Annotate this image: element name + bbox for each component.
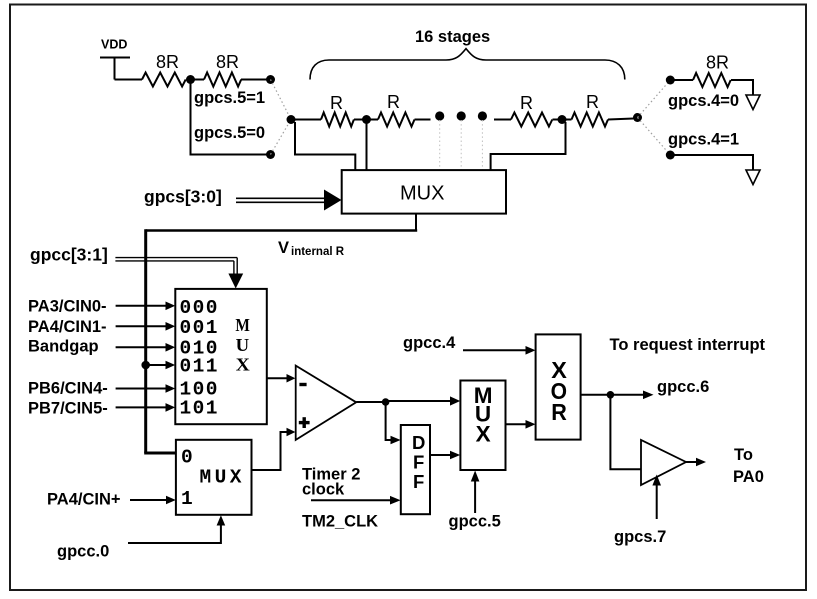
- comparator plus sign: [299, 421, 310, 424]
- wire R2 out: [415, 119, 431, 121]
- resistor 8R (right): [693, 73, 731, 87]
- wire node K down to buffer: [610, 395, 641, 469]
- tap wire from node E to MUX1: [366, 121, 368, 170]
- svg-text:011: 011: [180, 356, 219, 378]
- svg-text:1: 1: [181, 488, 193, 510]
- svg-text:gpcs.7: gpcs.7: [614, 528, 666, 546]
- node D ladder left: [287, 115, 296, 124]
- svg-text:Bandgap: Bandgap: [28, 338, 99, 356]
- svg-text:To request interrupt: To request interrupt: [610, 336, 766, 354]
- wire into R ladder 3: [494, 119, 511, 121]
- svg-text:M: M: [235, 315, 250, 335]
- bus wire gpcs[3:0] double line: [236, 198, 326, 202]
- dotted tap 2: [460, 120, 462, 170]
- svg-text:VDD: VDD: [101, 38, 127, 52]
- svg-text:gpcc[3:1]: gpcc[3:1]: [30, 245, 108, 265]
- svg-text:R: R: [520, 93, 533, 113]
- wire timer clock into DFF: [311, 499, 390, 501]
- wire PB6 input: [116, 388, 166, 390]
- wire node J to MUX U5: [386, 400, 450, 402]
- svg-text:gpcc.6: gpcc.6: [657, 378, 709, 396]
- svg-text:gpcs.5=1: gpcs.5=1: [194, 89, 265, 107]
- bus arrowhead into MUX2 top: [228, 274, 243, 289]
- svg-text:gpcs.4=0: gpcs.4=0: [668, 92, 739, 110]
- svg-text:U: U: [236, 335, 250, 355]
- svg-text:F: F: [413, 471, 424, 492]
- node G ladder right: [633, 113, 642, 122]
- svg-text:8R: 8R: [216, 52, 239, 72]
- svg-text:PB6/CIN4-: PB6/CIN4-: [28, 380, 108, 398]
- wire H to 8R: [670, 79, 693, 81]
- node B: [266, 75, 275, 84]
- wire D to R ladder: [291, 119, 321, 121]
- wire comparator output: [356, 401, 385, 403]
- svg-text:gpcs.4=1: gpcs.4=1: [668, 131, 739, 149]
- wire V internal R into comparator mux: [144, 452, 176, 455]
- wire XOR output to node K: [581, 394, 611, 396]
- wire ladder to node G: [608, 119, 634, 120]
- wire DFF output to MUX U5: [430, 454, 450, 456]
- dotted tap 3: [481, 120, 483, 170]
- svg-text:MUX: MUX: [200, 467, 245, 489]
- dotted switch link B to D: [271, 80, 292, 120]
- node K: [607, 391, 615, 399]
- svg-text:MUX: MUX: [400, 183, 444, 205]
- svg-text:R: R: [330, 93, 343, 113]
- bus arrowhead into MUX1: [324, 190, 342, 211]
- wire I to ground 2: [670, 155, 753, 170]
- resistor 8R (second): [204, 73, 241, 87]
- wire junction to 011 input: [146, 364, 166, 366]
- svg-text:0: 0: [181, 446, 193, 468]
- resistor R (ladder 3): [511, 113, 552, 127]
- wire to node F: [553, 119, 563, 121]
- wire node A to R2: [191, 79, 205, 81]
- comparator minus sign: [299, 383, 306, 386]
- wire PB7 input: [116, 406, 166, 408]
- dotted tap 1: [439, 120, 441, 170]
- wire buffer output: [686, 461, 697, 463]
- dotted switch link G to I: [638, 118, 671, 156]
- svg-text:PB7/CIN5-: PB7/CIN5-: [28, 400, 108, 418]
- ground 2: [746, 170, 760, 185]
- node H: [666, 76, 675, 85]
- wire mux U4 output to comparator plus: [252, 432, 288, 470]
- wire V internal R horizontal: [146, 229, 418, 232]
- wire PA4/CIN+ input: [130, 499, 167, 501]
- wire MUX U5 output to XOR: [506, 423, 527, 425]
- svg-text:PA0: PA0: [733, 468, 764, 486]
- svg-text:R: R: [387, 92, 400, 112]
- resistor R (ladder 2): [378, 113, 415, 127]
- tap wire from node D to MUX1: [295, 122, 355, 170]
- svg-text:101: 101: [180, 398, 219, 420]
- wire VDD to R1: [115, 79, 143, 81]
- wire R2 to node B: [241, 79, 271, 81]
- wire Bandgap input: [116, 346, 166, 348]
- wire PA3 input: [116, 305, 166, 307]
- node I: [666, 151, 675, 160]
- svg-text:X: X: [236, 355, 250, 375]
- resistor 8R (first): [142, 73, 186, 87]
- svg-text:PA4/CIN1-: PA4/CIN1-: [28, 318, 107, 336]
- svg-text:X: X: [476, 421, 491, 446]
- wire to node E: [354, 119, 367, 121]
- mux U4 box (0/1 MUX): [176, 440, 252, 515]
- wire node K to gpcc.6: [610, 394, 643, 396]
- svg-text:PA3/CIN0-: PA3/CIN0-: [28, 298, 107, 316]
- svg-text:R: R: [551, 399, 567, 425]
- wire MUX1 output down: [415, 214, 417, 231]
- ellipsis dot 3: [478, 111, 487, 120]
- svg-text:gpcc.5: gpcc.5: [449, 513, 501, 531]
- wire V internal R vertical (thick): [144, 229, 147, 453]
- svg-text:PA4/CIN+: PA4/CIN+: [47, 491, 121, 509]
- svg-text:000: 000: [180, 297, 219, 319]
- bus wire gpcc[3:1] double line: [115, 258, 237, 274]
- svg-text:TM2_CLK: TM2_CLK: [302, 513, 378, 531]
- wire 8R to ground 1: [731, 80, 753, 95]
- junction on V internal R line: [141, 361, 150, 370]
- gate U7 box XOR: [536, 334, 581, 439]
- wire node J down to DFF: [386, 402, 391, 440]
- comparator U3: [296, 366, 357, 440]
- wire MUX U2 to comparator minus: [267, 377, 287, 379]
- wire node F to R ladder 4: [562, 119, 572, 121]
- wire node A down and right: [191, 80, 271, 155]
- svg-text:internal R: internal R: [291, 246, 345, 258]
- svg-text:D: D: [412, 432, 425, 453]
- node E: [362, 115, 371, 124]
- ellipsis dot 1: [435, 111, 444, 120]
- brace 16 stages: [310, 49, 625, 80]
- wire gpcc.5 into MUX U5: [474, 481, 476, 513]
- svg-text:001: 001: [180, 317, 219, 339]
- wire node E to R ladder 2: [367, 119, 379, 121]
- wire gpcs.7 into buffer: [656, 485, 658, 519]
- flip-flop U6 box DFF: [401, 425, 430, 514]
- wire gpcc.4 into XOR: [463, 349, 526, 351]
- ellipsis dot 2: [457, 111, 466, 120]
- mux U1 box (ladder MUX): [342, 170, 506, 214]
- node C: [266, 150, 275, 159]
- svg-text:8R: 8R: [706, 53, 729, 73]
- dotted switch link G to H: [638, 80, 671, 118]
- node J: [382, 398, 390, 406]
- mux U2 box (6-input MUX): [175, 289, 266, 424]
- wire PA4 input: [116, 325, 166, 327]
- node A: [186, 75, 195, 84]
- wire gpcc.0: [128, 525, 221, 543]
- svg-text:gpcs[3:0]: gpcs[3:0]: [144, 187, 222, 207]
- svg-text:gpcc.0: gpcc.0: [57, 543, 109, 561]
- svg-text:R: R: [586, 92, 599, 112]
- resistor R (ladder 1): [321, 113, 354, 127]
- mux U5 box: [460, 381, 505, 471]
- power VDD symbol: [100, 58, 130, 80]
- buffer U8: [641, 440, 686, 485]
- svg-text:clock: clock: [302, 481, 345, 499]
- resistor R (ladder 4): [572, 113, 608, 127]
- svg-text:8R: 8R: [156, 52, 179, 72]
- svg-text:gpcc.4: gpcc.4: [403, 334, 456, 352]
- svg-text:16 stages: 16 stages: [415, 28, 490, 46]
- dotted switch link C to D: [271, 120, 292, 155]
- tap wire from node F to MUX1: [491, 122, 566, 170]
- svg-text:gpcs.5=0: gpcs.5=0: [194, 124, 265, 142]
- node F: [558, 115, 567, 124]
- svg-text:F: F: [413, 452, 424, 473]
- svg-text:To: To: [734, 446, 753, 464]
- svg-text:V: V: [278, 239, 289, 257]
- ground 1: [746, 95, 760, 110]
